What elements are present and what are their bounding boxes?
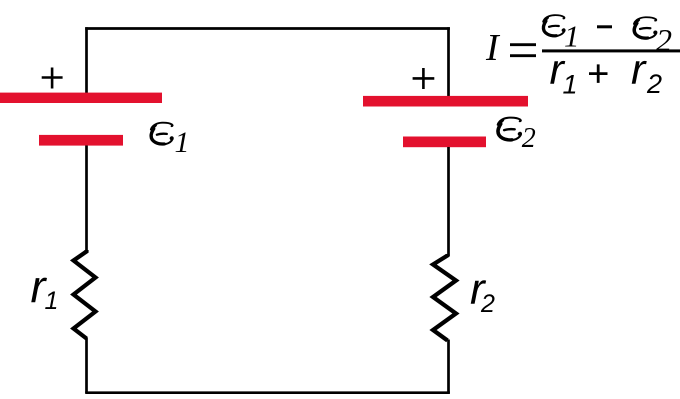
svg-text:1: 1 [563, 70, 578, 100]
svg-text:1: 1 [45, 287, 59, 315]
svg-text:2: 2 [656, 22, 672, 58]
battery E1 positive plate (long red bar) [0, 93, 162, 103]
equation numerator script E2 [634, 17, 656, 38]
svg-text:1: 1 [564, 19, 580, 54]
wire left lower (resistor r1 down to bottom wire) [85, 338, 88, 394]
equation denominator plus sign [589, 64, 608, 83]
resistor r1 zigzag [74, 250, 96, 339]
svg-text:1: 1 [175, 126, 190, 159]
equation numerator minus sign [597, 25, 612, 28]
equation equals sign [510, 45, 536, 56]
resistor r2 zigzag [433, 254, 456, 341]
wire right lower (resistor r2 down to bottom wire) [447, 340, 450, 394]
label E2 (script E) [498, 118, 521, 141]
svg-text:2: 2 [646, 69, 662, 99]
plus sign of battery E2 [413, 68, 435, 89]
svg-text:2: 2 [522, 123, 536, 154]
equation numerator script E1 [543, 15, 564, 36]
equation fraction bar [542, 49, 680, 52]
wire right upper (node between top wire and battery E2 positive plate) [447, 27, 450, 96]
plus sign of battery E1 [42, 68, 63, 89]
svg-text:2: 2 [480, 290, 495, 318]
wire left middle (battery E1 negative plate down to resistor r1) [85, 146, 88, 253]
wire left upper (node between top wire and battery E1 positive plate) [85, 27, 88, 93]
wire right middle (battery E2 negative plate down to resistor r2) [447, 147, 450, 256]
wire top [85, 27, 450, 30]
wire bottom [85, 391, 450, 394]
label E1 (script E) [151, 123, 173, 145]
svg-text:r: r [631, 46, 647, 94]
battery E1 negative plate (short red bar) [39, 135, 123, 146]
svg-text:I: I [485, 27, 501, 69]
battery E2 positive plate (long red bar) [363, 96, 528, 107]
battery E2 negative plate (short red bar) [403, 137, 486, 148]
